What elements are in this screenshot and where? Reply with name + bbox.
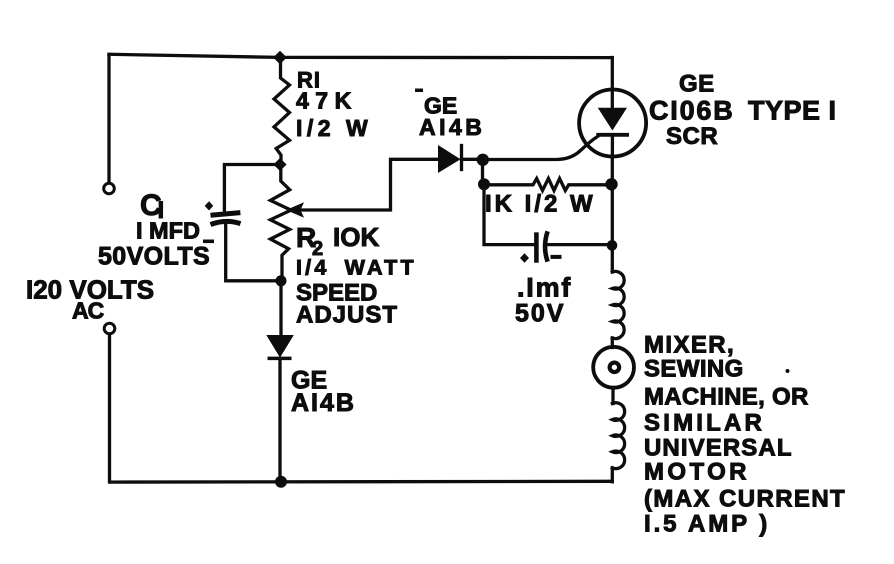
svg-text:MACHINE, OR: MACHINE, OR (644, 384, 809, 411)
svg-text:50V: 50V (515, 300, 565, 328)
svg-text:MOTOR: MOTOR (644, 459, 750, 486)
svg-text:CI06B: CI06B (649, 96, 735, 126)
svg-text:I/2 W: I/2 W (296, 115, 372, 141)
svg-text:AC: AC (72, 298, 104, 324)
svg-text:MIXER,: MIXER, (644, 332, 735, 359)
svg-text:SCR: SCR (666, 123, 718, 150)
svg-text:50VOLTS: 50VOLTS (98, 243, 210, 271)
svg-text:IK I/2 W: IK I/2 W (485, 191, 596, 218)
svg-text:47K: 47K (296, 88, 358, 114)
svg-text:UNIVERSAL: UNIVERSAL (644, 435, 793, 462)
svg-text:.Imf: .Imf (517, 273, 572, 303)
svg-text:ADJUST: ADJUST (296, 302, 398, 329)
svg-text:SIMILAR: SIMILAR (644, 410, 765, 437)
svg-text:SEWING: SEWING (644, 356, 744, 383)
svg-text:IOK: IOK (333, 222, 379, 252)
svg-text:AI4B: AI4B (291, 389, 356, 417)
svg-text:TYPE I: TYPE I (748, 96, 837, 126)
svg-text:(MAX CURRENT: (MAX CURRENT (644, 486, 846, 513)
svg-text:I MFD: I MFD (136, 218, 200, 244)
svg-text:I.5 AMP ): I.5 AMP ) (644, 511, 770, 538)
svg-text:GE: GE (679, 71, 715, 98)
svg-text:AI4B: AI4B (419, 114, 485, 140)
svg-text:I/4 WATT: I/4 WATT (296, 256, 417, 280)
